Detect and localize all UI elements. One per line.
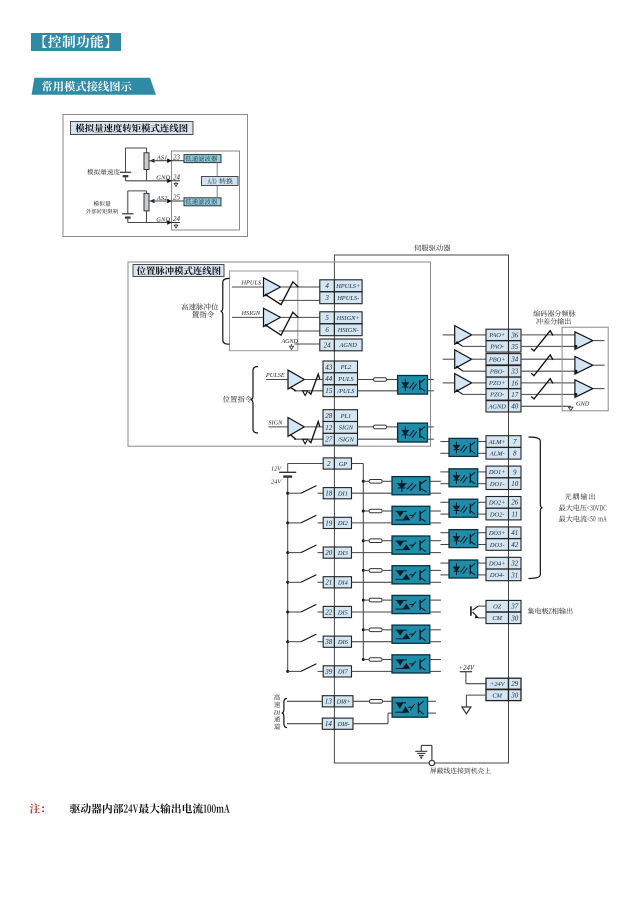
pin 39 DI7: [323, 666, 351, 677]
pin 24 of CN1 (diagram1): [167, 179, 180, 184]
svg-text:PZO+: PZO+: [488, 380, 505, 387]
label 伺服驱动器: [414, 244, 450, 251]
svg-text:30: 30: [510, 692, 519, 700]
svg-text:/SIGN: /SIGN: [337, 437, 355, 444]
receiver triangle 1: [562, 332, 604, 350]
encoder driver triangle 1: [443, 326, 486, 345]
wire GP to internal bus: [352, 464, 364, 660]
opto DI7 output stubs: [430, 660, 441, 672]
line driver SIGN: [268, 418, 304, 437]
battery 12V/24V: [279, 472, 296, 476]
svg-text:31: 31: [510, 571, 518, 579]
svg-text:17: 17: [511, 391, 519, 399]
shield connection node: [421, 745, 434, 765]
optocoupler: [392, 506, 430, 524]
pin 30 CM: [486, 690, 521, 701]
svg-text:26: 26: [511, 499, 519, 507]
wire AS2: [149, 200, 172, 202]
svg-text:HPULS+: HPULS+: [335, 283, 360, 290]
svg-text:33: 33: [510, 368, 519, 376]
svg-text:PZO-: PZO-: [489, 392, 504, 399]
brace for 位置指令: [251, 367, 258, 434]
wire GND circuit1: [126, 180, 172, 182]
pin 25 of CN1 (diagram1): [167, 199, 180, 204]
label 最大电流<50mA: [559, 515, 607, 522]
wire SIGN opto outputs: [428, 427, 434, 439]
pin 38 DI6: [323, 636, 351, 647]
label 编码器分频脉冲差分输出: [533, 310, 575, 317]
svg-text:HSIGN+: HSIGN+: [336, 315, 360, 322]
wire DI7 to optocoupler: [352, 670, 393, 672]
filter2 text: [185, 199, 217, 205]
label 屏蔽线连接到机壳上: [430, 767, 491, 773]
svg-text:+24V: +24V: [490, 681, 506, 688]
svg-text:15: 15: [325, 387, 333, 395]
label 高速脉冲位置指令: [181, 303, 218, 310]
label 光耦输出: [565, 493, 595, 500]
wire HSIGN outputs: [279, 317, 320, 331]
svg-text:OZ: OZ: [493, 603, 502, 610]
svg-text:36: 36: [510, 331, 519, 339]
inverting driver mark SIGN: [291, 435, 308, 444]
wire SIGN outputs: [294, 427, 323, 439]
wire HPULS outputs: [279, 287, 320, 300]
wire to pin 14: [287, 723, 322, 725]
potentiometer RP2: [144, 193, 149, 222]
svg-text:14: 14: [325, 720, 333, 728]
optocoupler: [449, 530, 478, 548]
svg-text:GND: GND: [576, 400, 590, 407]
twisted pair mark encoder 1: [531, 331, 553, 351]
svg-text:37: 37: [510, 603, 519, 611]
diagram1 title text: [75, 124, 187, 133]
filter1 text: [185, 156, 217, 162]
pin 29 +24V: [486, 678, 521, 689]
opto DI8 output stubs: [428, 701, 436, 713]
svg-text:+24V: +24V: [459, 665, 475, 672]
brace for 高速脉冲位置指令: [221, 278, 230, 344]
svg-text:13: 13: [325, 698, 333, 706]
svg-text:DO1+: DO1+: [488, 469, 506, 476]
svg-text:24: 24: [173, 174, 181, 182]
wire DI2 to optocoupler: [352, 522, 393, 524]
svg-text:34: 34: [510, 356, 519, 364]
svg-text:16: 16: [511, 379, 519, 387]
switch for DI5: [286, 604, 323, 613]
pin 37 OZ: [486, 600, 521, 611]
svg-text:ALM-: ALM-: [489, 451, 505, 458]
receiver box: [562, 327, 608, 411]
diagram2 title box 位置脉冲模式连线图: [133, 265, 224, 277]
svg-text:AGND: AGND: [487, 404, 506, 411]
bus branch and resistor DI1: [362, 480, 369, 483]
pin 3 HPULS-: [320, 292, 362, 304]
pin 40 AGND: [486, 401, 521, 412]
header text 控制功能: [42, 35, 109, 48]
pin 30 CM: [486, 612, 521, 623]
wire PULSE outputs: [294, 380, 323, 391]
pin 22 DI5: [323, 606, 351, 617]
svg-text:HSIGN-: HSIGN-: [337, 327, 359, 334]
analog ground mark: [174, 182, 178, 186]
opto DI3 output stubs: [430, 541, 441, 553]
driver box of diagram1: [172, 151, 240, 230]
svg-text:HPULS: HPULS: [241, 280, 262, 287]
low pass filter box 1 低通滤波器: [180, 155, 221, 163]
label 集电极Z相输出: [528, 608, 573, 615]
svg-text:43: 43: [325, 363, 333, 371]
switch for DI4: [286, 575, 323, 584]
svg-text:DO4-: DO4-: [489, 572, 505, 579]
opto DI1 output stubs: [430, 481, 441, 493]
svg-text:PBO+: PBO+: [488, 357, 506, 364]
photo output optocoupler DO4: [440, 563, 449, 575]
encoder output pair wires 2: [521, 359, 562, 371]
opto DI6 output stubs: [430, 630, 441, 642]
optocoupler: [449, 438, 478, 456]
svg-text:35: 35: [510, 343, 519, 351]
switch for DI3: [286, 545, 323, 554]
optocoupler: [392, 536, 430, 554]
opto DI4 output stubs: [430, 570, 441, 582]
opto DI2 output stubs: [430, 511, 441, 523]
label 最大电压<30VDC: [559, 504, 607, 511]
svg-text:44: 44: [325, 375, 333, 383]
wire PULS opto outputs: [428, 380, 434, 391]
label AGND and ground mark: [281, 339, 320, 350]
battery V1: [120, 172, 131, 181]
sub box high speed pulse input: [230, 271, 298, 351]
battery V2: [122, 214, 133, 223]
encoder driver triangle 2: [443, 350, 486, 369]
servo driver box 伺服驱动器: [334, 255, 508, 763]
svg-text:23: 23: [173, 153, 181, 161]
svg-text:40: 40: [511, 403, 519, 411]
switch for DI6: [286, 634, 323, 643]
pin 6 HSIGN-: [320, 324, 362, 336]
twisted pair mark encoder 2: [531, 355, 553, 376]
twisted pair mark PULSE: [309, 374, 320, 394]
section banner 常用模式接线图示: [32, 78, 156, 95]
pin 26 DO2+: [486, 497, 521, 509]
encoder output pair wires 3: [521, 383, 562, 395]
line driver PULSE: [265, 370, 304, 389]
opto DI5 output stubs: [430, 600, 441, 612]
wire DI4 to optocoupler: [352, 581, 393, 583]
wire AS1: [149, 160, 172, 162]
svg-text:GP: GP: [339, 461, 348, 468]
resistor R-DI8: [370, 700, 383, 704]
svg-text:5: 5: [325, 314, 329, 322]
svg-text:DO4+: DO4+: [488, 560, 506, 567]
svg-text:DI7: DI7: [337, 669, 349, 676]
wire CM to ground: [466, 695, 486, 707]
svg-text:24: 24: [173, 215, 181, 223]
svg-text:DI6: DI6: [337, 639, 349, 646]
wire DI5 to optocoupler: [352, 611, 393, 613]
receiver triangle 3: [562, 380, 604, 398]
wire 13 to resistor: [353, 700, 370, 702]
switch for DI1: [286, 486, 323, 495]
svg-text:38: 38: [324, 638, 333, 646]
svg-text:DI1: DI1: [337, 491, 348, 498]
svg-text:AS2: AS2: [156, 195, 168, 202]
svg-text:PULS: PULS: [337, 376, 354, 383]
svg-text:AGND: AGND: [338, 342, 357, 349]
encoder driver complement 3: [456, 389, 486, 394]
brace for 高速DI通道: [282, 698, 287, 727]
pin 15 /PULS: [323, 385, 358, 397]
optocoupler: [449, 469, 478, 487]
pin 2 GP: [323, 458, 351, 469]
svg-text:39: 39: [324, 668, 333, 676]
svg-text:6: 6: [325, 326, 329, 334]
svg-text:PAO-: PAO-: [489, 344, 504, 351]
pin 10 DO1-: [486, 478, 521, 490]
wire 44 PULS to optocoupler: [358, 379, 374, 381]
svg-text:DO3+: DO3+: [488, 530, 506, 537]
svg-text:CM: CM: [492, 692, 502, 699]
pin 24 AGND: [320, 339, 362, 351]
bus branch and resistor DI7: [362, 658, 369, 661]
optocoupler: [398, 423, 428, 442]
svg-text:ALM+: ALM+: [488, 439, 506, 446]
svg-text:PAO+: PAO+: [488, 332, 505, 339]
inverting driver mark PULSE: [291, 388, 308, 396]
encoder driver complement 1: [456, 341, 486, 346]
svg-text:10: 10: [511, 480, 519, 488]
optocoupler: [449, 499, 478, 517]
svg-text:DI2: DI2: [337, 520, 349, 527]
pin 36 PAO+: [486, 329, 521, 340]
label 模拟量速度: [87, 169, 120, 175]
pin 17 PZO-: [486, 389, 521, 400]
line driver HPULS: [232, 278, 281, 296]
pin 11 DO2-: [486, 508, 521, 520]
pin 20 DI3: [323, 547, 351, 558]
label 高速DI通道 vertical: [274, 694, 280, 700]
receiver triangle 2: [562, 356, 604, 374]
svg-text:DO3-: DO3-: [489, 542, 505, 549]
+24V rail: [460, 672, 486, 684]
photo output optocoupler DO3: [440, 533, 449, 545]
svg-text:7: 7: [513, 438, 517, 446]
wire GND circuit2: [128, 222, 172, 224]
svg-text:12: 12: [325, 424, 333, 432]
svg-text:19: 19: [325, 519, 333, 527]
A/D text: [208, 178, 233, 185]
pin 33 PBO-: [486, 366, 521, 377]
wire DI1 to optocoupler: [352, 492, 393, 494]
wire to pin 13: [287, 700, 322, 702]
pin 34 PBO+: [486, 354, 521, 365]
chassis ground symbol: [415, 751, 427, 755]
pin 24 of CN1 (diagram1): [167, 220, 180, 225]
svg-text:12V: 12V: [271, 465, 282, 472]
pin 32 DO4+: [486, 557, 521, 569]
header title bar 【控制功能】: [31, 33, 121, 51]
pin 41 DO3+: [486, 527, 521, 539]
svg-text:DO1-: DO1-: [489, 481, 505, 488]
encoder driver triangle 3: [443, 374, 486, 393]
svg-text:PL2: PL2: [340, 364, 352, 371]
diagram1 title box 模拟量速度转矩模式连线图: [71, 122, 194, 135]
bus branch and resistor DI3: [362, 539, 369, 542]
pin 28 PL1: [323, 410, 358, 422]
diagram2 title text: [137, 266, 221, 275]
switch for DI7: [286, 664, 323, 673]
optocoupler: [392, 625, 430, 643]
twisted pair mark SIGN: [309, 422, 320, 443]
wiper arrow RP2: [149, 199, 154, 203]
svg-text:41: 41: [511, 529, 518, 537]
svg-text:PULSE: PULSE: [265, 372, 285, 379]
brace photo outputs: [529, 437, 543, 579]
wire DI3 to optocoupler: [352, 552, 393, 554]
resistor R-SIGN: [374, 425, 387, 429]
bus branch and resistor DI5: [362, 599, 369, 602]
svg-text:DI8-: DI8-: [337, 721, 350, 728]
svg-text:32: 32: [510, 560, 519, 568]
note text 驱动器内部24V最大输出电流100mA: [70, 803, 230, 813]
svg-text:24: 24: [324, 341, 332, 349]
pin 42 DO3-: [486, 539, 521, 551]
svg-text:2: 2: [327, 460, 331, 468]
low pass filter box 2 低通滤波器: [180, 198, 221, 206]
pin 7 ALM+: [486, 436, 521, 448]
pin 16 PZO+: [486, 377, 521, 388]
svg-text:HPULS-: HPULS-: [336, 295, 359, 302]
svg-text:SIGN: SIGN: [268, 420, 283, 427]
wire top loop circuit1: [126, 148, 147, 172]
bus branch and resistor DI4: [362, 569, 369, 572]
diagram2 outer box: [128, 262, 431, 446]
wire DI6 to optocoupler: [352, 641, 393, 643]
svg-text:25: 25: [173, 194, 181, 202]
switch for DI2: [286, 515, 323, 524]
resistor R-PULS: [374, 378, 387, 382]
svg-text:PL1: PL1: [340, 413, 352, 420]
svg-text:18: 18: [325, 490, 333, 498]
svg-text:CM: CM: [492, 615, 502, 622]
wire 12 SIGN to optocoupler: [358, 426, 374, 428]
svg-text:DI8+: DI8+: [336, 699, 351, 706]
pin 35 PAO-: [486, 341, 521, 352]
svg-text:DI4: DI4: [337, 580, 349, 587]
pin 21 DI4: [323, 577, 351, 588]
svg-text:SIGN: SIGN: [339, 425, 354, 432]
wire top loop circuit2: [128, 191, 147, 213]
svg-text:/PULS: /PULS: [336, 388, 355, 395]
wire AGND 40: [521, 406, 573, 410]
svg-text:20: 20: [325, 549, 333, 557]
pin 9 DO1+: [486, 466, 521, 478]
svg-text:DI3: DI3: [337, 550, 348, 557]
pin 18 DI1: [323, 488, 351, 499]
pin 12 SIGN: [323, 422, 358, 434]
diagram1 outer box: [63, 115, 248, 237]
svg-text:28: 28: [325, 412, 333, 420]
svg-text:8: 8: [513, 450, 517, 458]
label 模拟量 外部转矩限制: [93, 201, 110, 206]
wiper arrow RP1: [149, 159, 154, 163]
switch bus: [287, 477, 289, 672]
twisted pair mark encoder 3: [531, 379, 553, 399]
wire filters to A/D: [216, 163, 218, 198]
svg-text:HSIGN: HSIGN: [241, 310, 261, 317]
potentiometer RP1: [144, 153, 149, 181]
svg-text:3: 3: [324, 294, 329, 302]
label 位置指令: [223, 396, 252, 403]
svg-text:27: 27: [325, 436, 333, 444]
svg-text:30: 30: [510, 614, 519, 622]
svg-text:24V: 24V: [271, 479, 282, 486]
ground symbol open triangle: [462, 707, 471, 714]
optocoupler: [449, 560, 478, 578]
bus branch and resistor DI6: [362, 628, 369, 631]
wire 14 to optocoupler: [353, 713, 392, 724]
svg-text:21: 21: [325, 579, 332, 587]
pin 5 HSIGN+: [320, 312, 362, 324]
photo output optocoupler ALM: [440, 442, 449, 454]
encoder output pair wires 1: [521, 335, 562, 347]
encoder driver complement 2: [456, 366, 486, 372]
pin 43 PL2: [323, 361, 358, 373]
photo output optocoupler DO1: [440, 472, 449, 484]
twisted pair mark HSIGN: [265, 312, 299, 335]
optocoupler: [398, 376, 428, 395]
svg-text:22: 22: [325, 608, 333, 616]
note 注：: [30, 803, 44, 813]
svg-text:29: 29: [511, 680, 519, 688]
pin 13 DI8+: [322, 696, 353, 707]
pin 19 DI2: [323, 517, 351, 528]
pin 4 HPULS+: [320, 280, 362, 292]
svg-text:PBO-: PBO-: [489, 369, 505, 376]
svg-text:AS1: AS1: [156, 155, 168, 162]
optocoupler: [392, 655, 430, 673]
A/D converter box A/D转换: [202, 177, 239, 186]
transistor Q-OZ open collector: [471, 606, 486, 618]
svg-text:DI: DI: [273, 710, 281, 716]
pin 27 /SIGN: [323, 433, 358, 445]
optocoupler: [392, 566, 430, 584]
svg-text:4: 4: [325, 282, 329, 290]
pin 14 DI8-: [322, 718, 353, 729]
optocoupler: [392, 697, 428, 717]
pin 44 PULS: [323, 373, 358, 385]
svg-text:DI5: DI5: [337, 609, 348, 616]
bus branch and resistor DI2: [362, 510, 369, 513]
pin 23 of CN1 (diagram1): [167, 158, 180, 163]
banner text: [42, 81, 132, 92]
optocoupler: [392, 477, 430, 495]
line driver HSIGN: [232, 308, 281, 326]
twisted pair mark HPULS: [265, 282, 299, 305]
svg-text:9: 9: [513, 468, 517, 476]
svg-text:DO2+: DO2+: [488, 500, 506, 507]
svg-text:42: 42: [511, 541, 519, 549]
svg-text:11: 11: [512, 511, 518, 519]
photo output optocoupler DO2: [440, 502, 449, 514]
analog ground mark: [174, 224, 178, 228]
wire GP to battery: [288, 464, 324, 472]
pin 8 ALM-: [486, 448, 521, 460]
optocoupler: [392, 595, 430, 613]
svg-text:DO2-: DO2-: [489, 511, 505, 518]
pin 31 DO4-: [486, 569, 521, 581]
